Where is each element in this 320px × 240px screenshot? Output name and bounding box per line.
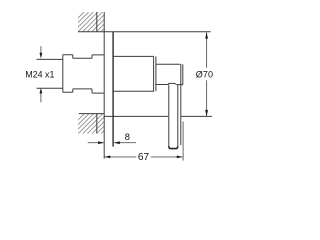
svg-text:Ø70: Ø70 [196,70,213,80]
svg-text:8: 8 [125,132,130,142]
svg-text:67: 67 [138,152,150,163]
svg-text:M24 x1: M24 x1 [25,70,54,80]
